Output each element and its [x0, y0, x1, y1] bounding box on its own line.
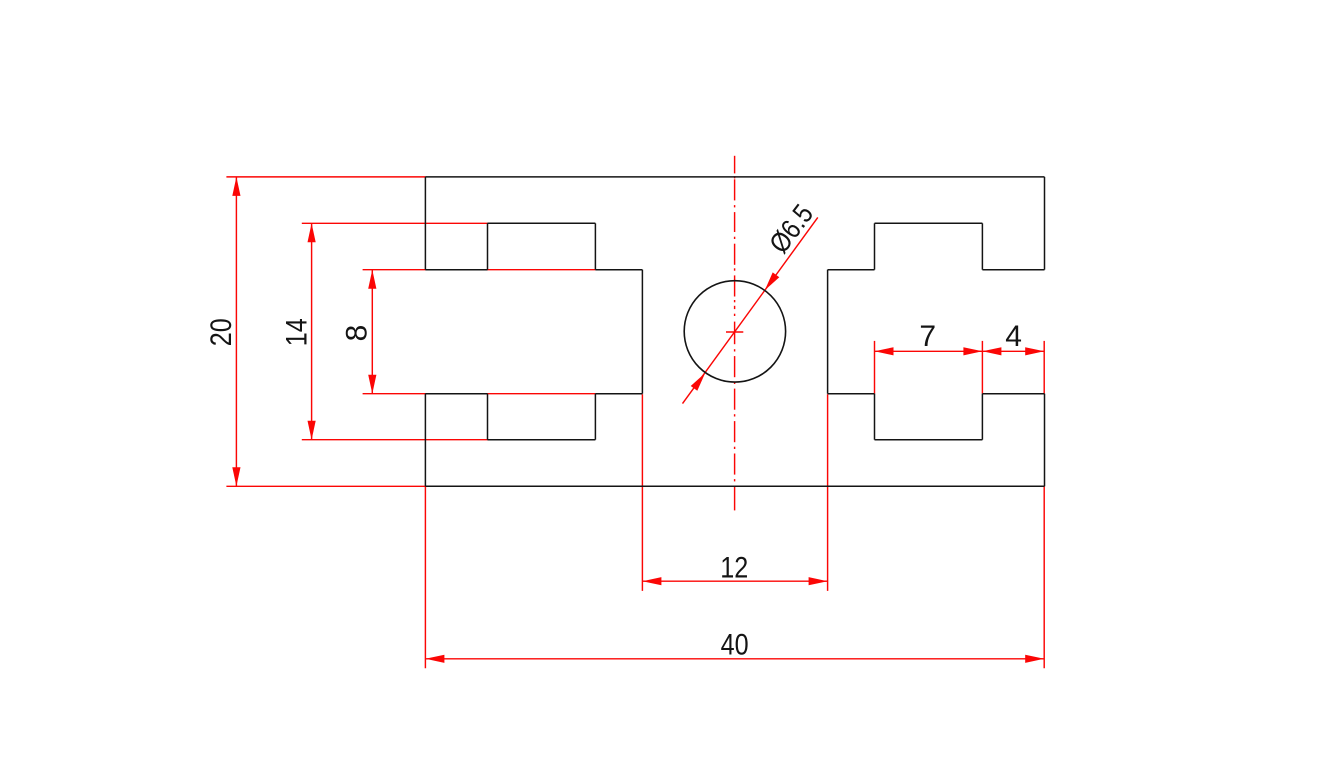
svg-text:14: 14: [280, 318, 313, 346]
svg-text:4: 4: [1005, 320, 1022, 353]
svg-text:40: 40: [721, 628, 749, 661]
svg-text:12: 12: [720, 551, 748, 584]
svg-text:20: 20: [205, 318, 238, 346]
svg-text:8: 8: [341, 325, 374, 342]
svg-text:7: 7: [919, 320, 936, 353]
